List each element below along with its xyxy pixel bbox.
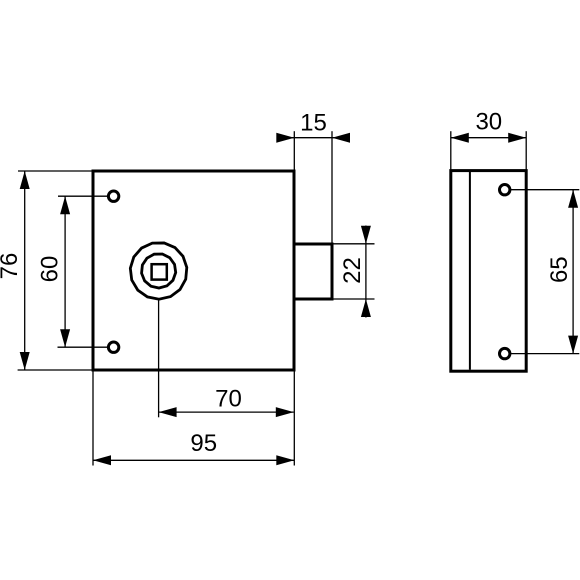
- dimension 30 extension left: [450, 131, 452, 170]
- dimension 30 extension right: [525, 131, 527, 170]
- dimension 65 line: [572, 190, 574, 354]
- dimension 76 arrow top: [20, 171, 30, 189]
- svg-text:70: 70: [215, 386, 242, 413]
- spindle square: [152, 264, 167, 279]
- dimension 30 line: [451, 137, 526, 139]
- svg-text:15: 15: [300, 110, 327, 137]
- dimension 15 extension right: [331, 131, 333, 243]
- dimension 95 line: [93, 459, 294, 461]
- dimension 76 line: [24, 171, 26, 370]
- dimension 70 arrow right: [276, 407, 294, 417]
- svg-text:22: 22: [339, 257, 366, 284]
- dimension 70 arrow left: [159, 407, 177, 417]
- side screw hole bottom: [500, 348, 510, 358]
- dimension 22 label: [339, 257, 366, 284]
- dimension 76 arrow bottom: [20, 352, 30, 370]
- dimension 22 tick top: [334, 243, 375, 245]
- dimension 65 arrow bottom: [568, 336, 578, 354]
- front screw hole top: [108, 191, 118, 201]
- svg-text:60: 60: [37, 256, 64, 283]
- dimension 15 arrow left: [276, 133, 294, 143]
- dimension 65 leader bottom: [511, 353, 579, 355]
- dimension 60 arrow top: [60, 196, 70, 214]
- dimension 95 label: [190, 430, 217, 457]
- knob inner ring: [142, 254, 176, 288]
- dimension 22 arrow top: [361, 226, 371, 244]
- dimension 60 leader bottom: [58, 346, 108, 348]
- dimension 76 extension bottom: [18, 369, 92, 371]
- svg-text:95: 95: [190, 430, 217, 457]
- dimension 60 leader top: [58, 195, 108, 197]
- dimension 95 arrow left: [93, 455, 111, 465]
- dimension 15 extension left: [293, 131, 295, 170]
- dimension 30 arrow right: [508, 133, 526, 143]
- dimension 76 extension top: [18, 170, 92, 172]
- dimension 76 label: [0, 253, 23, 280]
- latch bolt: [294, 244, 332, 299]
- dimension 70 line: [159, 411, 294, 413]
- dimension 70 label: [215, 386, 242, 413]
- svg-text:76: 76: [0, 253, 23, 280]
- dimension 65 arrow top: [568, 190, 578, 208]
- knob outer ring: [130, 243, 186, 299]
- front plate outline: [93, 171, 294, 370]
- side view faceplate line: [469, 172, 471, 370]
- dimension 15 label: [300, 110, 327, 137]
- dimension 60 line: [64, 196, 66, 347]
- dimension 30 arrow left: [451, 133, 469, 143]
- dimension 95 arrow right: [276, 455, 294, 465]
- side view outline: [451, 171, 526, 372]
- dimension 22 arrow bottom: [361, 299, 371, 317]
- dimension 65 label: [546, 256, 573, 283]
- dimension 65 leader top: [511, 189, 579, 191]
- dimension 15 arrow right: [332, 133, 350, 143]
- dimension 15 line: [277, 137, 350, 139]
- side screw hole top: [500, 185, 510, 195]
- dimension 60 label: [37, 256, 64, 283]
- svg-text:65: 65: [546, 256, 573, 283]
- knob centerline extension: [158, 301, 160, 418]
- dimension 70 extension right: [293, 372, 295, 466]
- dimension 95 extension left: [92, 372, 94, 466]
- dimension 30 label: [475, 109, 502, 136]
- svg-text:30: 30: [475, 109, 502, 136]
- dimension 22 tick bottom: [334, 298, 375, 300]
- dimension 22 line: [365, 226, 367, 318]
- front screw hole bottom: [108, 342, 118, 352]
- dimension 60 arrow bottom: [60, 329, 70, 347]
